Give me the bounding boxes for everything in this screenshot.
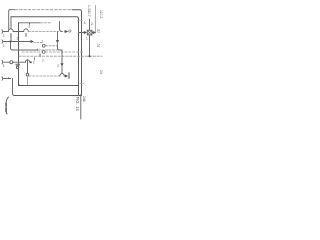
svg-text:110-2: 110-2 (99, 10, 103, 19)
wire under hump2 (25, 34, 27, 37)
node input terminal 3 (1, 61, 4, 64)
svg-text:2: 2 (29, 25, 31, 29)
wire x12.5 vertical to bottom bus (13, 79, 15, 96)
wire input row 1 mid (13, 31, 24, 33)
arrow down x57.5 (56, 40, 59, 44)
arrow right y76 (65, 74, 68, 77)
wire long left vertical (18, 23, 20, 86)
svg-text:2: 2 (91, 22, 93, 26)
node input terminal 2 (1, 40, 4, 43)
node input terminal 1 (1, 30, 4, 33)
svg-text:1-340-7: 1-340-7 (87, 5, 91, 17)
svg-text:4: 4 (8, 77, 10, 81)
label curve dark seg2 (5, 108, 7, 111)
wire x27.5 drop (27, 60, 29, 73)
wire input row 1 (3, 31, 8, 33)
node tick right pair (80, 82, 84, 84)
svg-text:2: 2 (10, 34, 12, 38)
wire right vertical x96 (95, 6, 97, 34)
wire x10.5 drop to y50 (11, 42, 13, 51)
arrow down x62 (60, 63, 63, 67)
svg-text:3: 3 (3, 64, 5, 68)
svg-text:2: 2 (42, 59, 44, 63)
arrow right row2 (31, 40, 35, 43)
label curve dark seg1 (5, 103, 7, 106)
arrow out of mixer (93, 31, 96, 34)
component mixer box (87, 30, 92, 35)
wire to mixer arrow segment (61, 31, 66, 33)
wire input row1 faint continuation (28, 31, 58, 33)
wire dashed y51.5 (22, 51, 42, 53)
svg-text:1: 1 (3, 33, 5, 37)
component capacitor circle (16, 66, 18, 68)
component mixer X (88, 31, 92, 35)
component capacitor bars (16, 64, 20, 66)
arrow into mixer (84, 31, 87, 34)
wire mixer feed (79, 32, 85, 34)
wire under hump1 (10, 34, 12, 42)
wire y50 (13, 49, 39, 51)
svg-text:FIG. 14: FIG. 14 (75, 97, 80, 112)
wire input row 2 (3, 41, 30, 43)
wire hump over x62 on y76 (60, 74, 65, 77)
wire dashed y56 (19, 55, 102, 57)
node dot junction H3 (10, 41, 12, 43)
wire bottom-left curve (6, 97, 8, 114)
wire y50 faint (38, 49, 58, 51)
svg-text:4: 4 (37, 48, 39, 52)
svg-text:Δz: Δz (97, 29, 101, 33)
svg-text:6: 6 (84, 21, 86, 25)
svg-text:2: 2 (33, 61, 35, 65)
wire vertical x62 down (61, 50, 63, 64)
wire mixer right lead (92, 32, 93, 34)
component small circle row3 (10, 61, 13, 64)
node circle after arrow (69, 30, 71, 32)
svg-text:1: 1 (86, 37, 88, 41)
wire mixer bottom lead (89, 35, 91, 55)
component blob on y76 (26, 73, 29, 76)
wire y63 (19, 61, 26, 63)
wire vertical x57.5 from input row (57, 32, 59, 41)
wire row3 to vertical (13, 61, 19, 63)
wire hump over x26.5 (24, 29, 29, 32)
node dot wire y63 end (30, 61, 32, 63)
wire input row 4 (3, 78, 11, 80)
wire H2 left drop (10, 17, 12, 29)
component bar at x69 (69, 72, 70, 78)
wire hump over x11 (8, 29, 13, 32)
wire stub x34.5 (33, 58, 35, 60)
svg-text:2: 2 (42, 40, 44, 44)
node input terminal 4 (1, 77, 4, 80)
wire outer left corner (8, 10, 11, 30)
svg-text:24: 24 (99, 70, 103, 74)
wire bus y95.5 (15, 95, 82, 97)
node dot y56 (88, 55, 90, 57)
wire rail y22.5 (19, 22, 41, 24)
wire hump over x27.5 (25, 60, 29, 62)
arrow right row1 (65, 30, 69, 33)
svg-text:2: 2 (17, 37, 19, 41)
wire dashed y46 (34, 41, 42, 43)
wire top outer rail H1 (10, 9, 16, 11)
svg-text:3: 3 (3, 44, 5, 48)
wire bus y85.5 (19, 84, 79, 86)
wire inner rail H2 (11, 17, 79, 96)
wire input row 3 (3, 61, 10, 63)
svg-text:246: 246 (82, 96, 86, 102)
wire dashed y76 left (29, 75, 60, 77)
svg-text:2: 2 (57, 64, 59, 68)
wire fig label line (80, 95, 82, 120)
wire drop from rail y22.5 with hook (60, 22, 63, 32)
wire mixer top lead (89, 19, 91, 30)
node dot circle y46 (42, 44, 45, 47)
wire x27.5 to bus1 (27, 76, 29, 85)
wire vertical x62 lower (61, 67, 63, 74)
node tick on y56 (39, 54, 41, 56)
wire corner y50 from x57.5 to x62 (58, 44, 63, 50)
node tick right pair top (77, 19, 82, 21)
svg-text:Δz: Δz (97, 44, 101, 48)
